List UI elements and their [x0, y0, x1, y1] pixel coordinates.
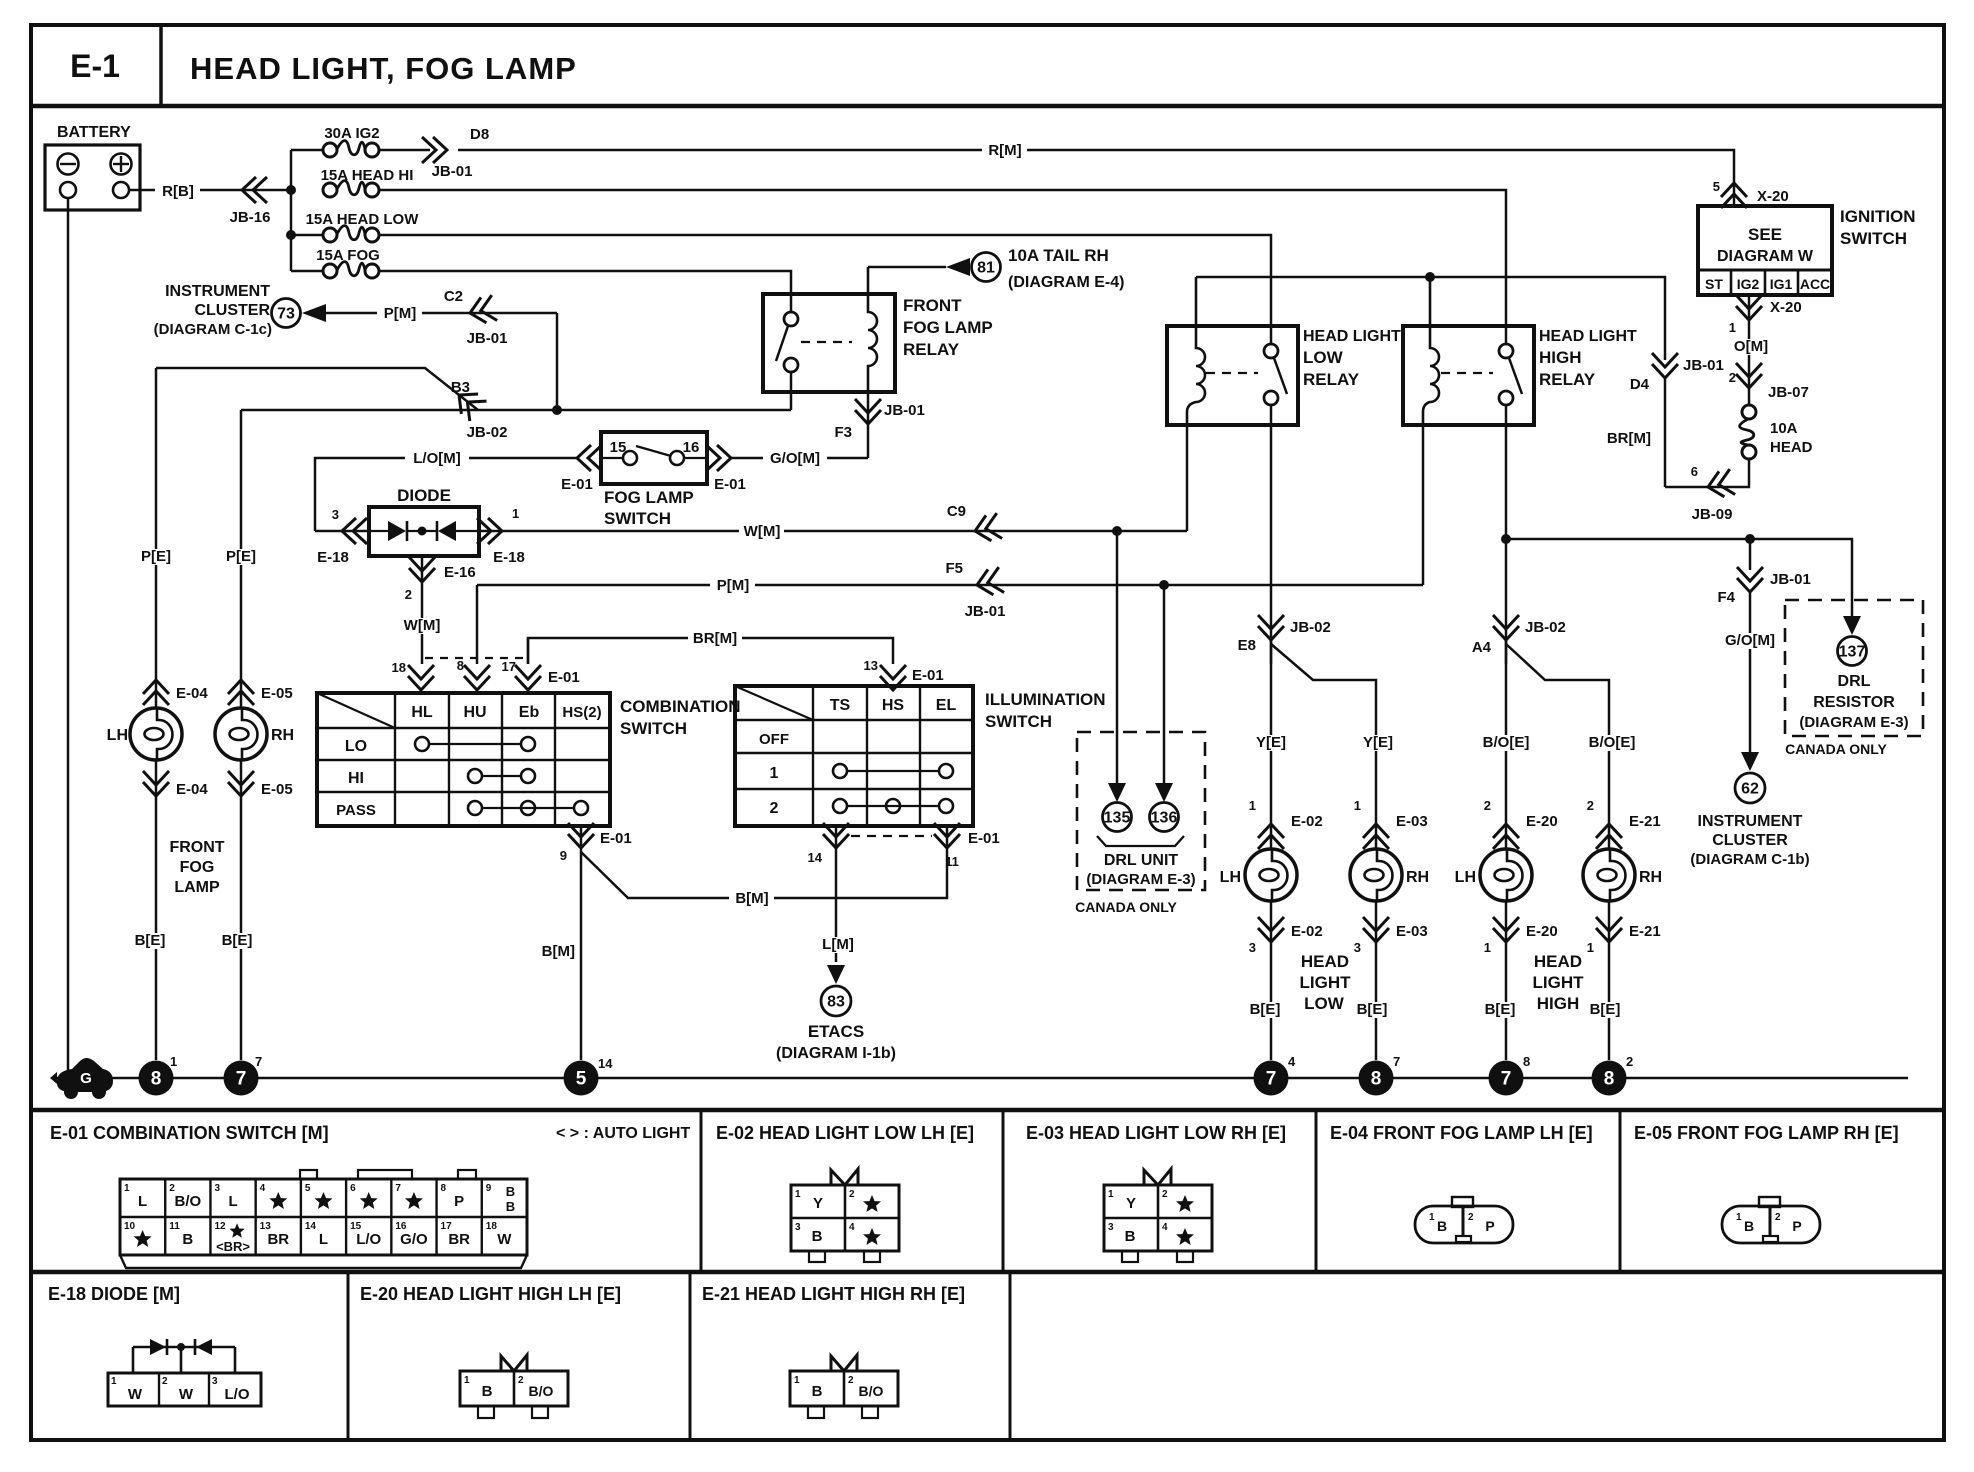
svg-text:G: G — [80, 1070, 92, 1087]
svg-text:X-20: X-20 — [1770, 299, 1802, 316]
svg-text:EL: EL — [936, 697, 957, 714]
svg-text:6: 6 — [350, 1183, 356, 1194]
svg-text:2: 2 — [405, 587, 412, 602]
svg-text:FRONT: FRONT — [169, 839, 224, 856]
svg-text:E-01 COMBINATION SWITCH [M]: E-01 COMBINATION SWITCH [M] — [50, 1123, 329, 1143]
svg-text:DRL UNIT: DRL UNIT — [1104, 852, 1179, 869]
connector chevron A4 JB-02 — [1493, 615, 1519, 640]
svg-text:3: 3 — [1354, 940, 1361, 955]
svg-text:HS(2): HS(2) — [562, 704, 601, 721]
svg-text:HEAD: HEAD — [1534, 952, 1582, 971]
svg-text:IG2: IG2 — [1737, 276, 1760, 292]
wire 15A FOG to fog lamp relay switch — [379, 271, 791, 312]
svg-text:B: B — [506, 1184, 515, 1199]
svg-text:73: 73 — [277, 306, 295, 323]
svg-text:G/O: G/O — [400, 1231, 428, 1248]
ground node 8 (pin 1) — [139, 1061, 174, 1096]
wire P[E] fog LH — [155, 368, 158, 708]
wire R[M] to ignition switch — [379, 149, 430, 152]
svg-text:5: 5 — [576, 1069, 587, 1090]
wire to head light low relay coil — [1186, 425, 1189, 531]
svg-text:JB-01: JB-01 — [884, 402, 925, 419]
off-page ref 136 — [1150, 803, 1179, 832]
svg-text:3: 3 — [1249, 940, 1256, 955]
lamp front fog LH — [130, 708, 182, 760]
connector E-21 2-pin — [790, 1371, 898, 1406]
svg-text:2: 2 — [1468, 1212, 1474, 1223]
wire to DRL 135 — [1116, 531, 1119, 784]
svg-text:<BR>: <BR> — [216, 1239, 250, 1254]
wire L/O[M] — [315, 458, 577, 531]
connector chevron JB-16 — [242, 177, 267, 203]
svg-text:L[M]: L[M] — [822, 936, 854, 953]
svg-text:P: P — [1485, 1218, 1494, 1234]
svg-text:E-01: E-01 — [548, 669, 580, 686]
svg-text:CLUSTER: CLUSTER — [1712, 832, 1788, 849]
svg-text:L: L — [138, 1193, 147, 1210]
svg-text:B: B — [506, 1199, 515, 1214]
svg-text:HIGH: HIGH — [1539, 348, 1582, 367]
wire P[E] fog RH — [240, 410, 243, 708]
connector E-05 oval — [1722, 1206, 1820, 1243]
svg-text:E-1: E-1 — [70, 48, 120, 84]
wire O[M] — [1748, 330, 1751, 405]
svg-text:DIAGRAM W: DIAGRAM W — [1717, 248, 1814, 265]
svg-text:R[M]: R[M] — [988, 142, 1021, 159]
connector chevron 2 JB-07 — [1736, 363, 1762, 388]
svg-text:HEAD LIGHT: HEAD LIGHT — [1303, 328, 1401, 345]
svg-text:JB-09: JB-09 — [1692, 506, 1733, 523]
svg-text:7: 7 — [236, 1069, 247, 1090]
svg-text:W: W — [179, 1386, 194, 1403]
svg-text:2: 2 — [770, 800, 779, 817]
svg-text:30A IG2: 30A IG2 — [324, 125, 379, 142]
svg-text:JB-01: JB-01 — [1683, 357, 1724, 374]
svg-text:RELAY: RELAY — [1303, 370, 1360, 389]
junction node battery feed — [290, 150, 293, 271]
svg-text:RH: RH — [1639, 869, 1662, 886]
svg-text:2: 2 — [1626, 1054, 1633, 1069]
connector chevron 14 E-01 below — [835, 826, 838, 852]
diode D1 — [369, 530, 388, 532]
svg-text:8: 8 — [1604, 1069, 1615, 1090]
svg-text:3: 3 — [212, 1376, 218, 1387]
svg-text:P[M]: P[M] — [717, 577, 750, 594]
svg-text:E-20: E-20 — [1526, 923, 1558, 940]
svg-text:E-05 FRONT FOG LAMP RH [E]: E-05 FRONT FOG LAMP RH [E] — [1634, 1123, 1899, 1143]
connector chevron E-01 (fog switch right) — [706, 445, 731, 471]
svg-text:11: 11 — [945, 854, 959, 869]
connector chevron 9 E-01 below table — [580, 826, 583, 852]
svg-text:E-20: E-20 — [1526, 813, 1558, 830]
svg-text:1: 1 — [1354, 798, 1361, 813]
svg-text:(DIAGRAM E-3): (DIAGRAM E-3) — [1086, 871, 1195, 888]
ground symbol G (car) — [57, 1058, 113, 1092]
connector chevron E-04 lower — [155, 760, 158, 1060]
wire P[M] to instrument cluster — [326, 312, 557, 315]
fog lamp switch — [601, 432, 707, 484]
wire battery plus R[B] — [129, 189, 291, 192]
svg-text:RH: RH — [271, 727, 294, 744]
svg-text:10A TAIL RH: 10A TAIL RH — [1008, 246, 1109, 265]
illumination switch table — [735, 686, 973, 826]
svg-text:IG1: IG1 — [1770, 276, 1793, 292]
svg-text:4: 4 — [1162, 1222, 1168, 1233]
combination switch HI contacts — [468, 769, 482, 783]
svg-text:FOG: FOG — [180, 859, 215, 876]
svg-text:8: 8 — [457, 658, 464, 673]
diode D2 — [436, 521, 439, 541]
svg-text:W[M]: W[M] — [404, 617, 441, 634]
svg-text:HS: HS — [882, 697, 905, 714]
svg-text:1: 1 — [1736, 1212, 1742, 1223]
svg-text:D8: D8 — [470, 126, 489, 143]
svg-text:RESISTOR: RESISTOR — [1813, 694, 1895, 711]
svg-text:SWITCH: SWITCH — [1840, 229, 1907, 248]
svg-text:(DIAGRAM E-3): (DIAGRAM E-3) — [1799, 714, 1908, 731]
wire low relay switch to E8 — [1270, 405, 1273, 664]
svg-text:HIGH: HIGH — [1537, 994, 1580, 1013]
svg-text:2: 2 — [848, 1375, 854, 1386]
ground node 7 (pin 4) — [1254, 1061, 1289, 1096]
connector chevron 1 E-21 — [1608, 901, 1611, 1060]
connector chevron 2 E-20 — [1493, 824, 1519, 849]
svg-text:5: 5 — [1713, 179, 1720, 194]
svg-text:L/O: L/O — [356, 1231, 381, 1248]
svg-text:81: 81 — [977, 260, 995, 277]
wire Y[E] low RH branch — [1271, 644, 1376, 849]
wire W[M] horizontal — [517, 530, 1187, 533]
svg-text:10A: 10A — [1770, 420, 1798, 437]
svg-text:B[E]: B[E] — [1590, 1001, 1621, 1018]
lamp head light low RH — [1350, 849, 1402, 901]
svg-text:1: 1 — [1484, 940, 1491, 955]
svg-text:2: 2 — [1587, 798, 1594, 813]
svg-text:LH: LH — [107, 727, 128, 744]
svg-text:15A FOG: 15A FOG — [316, 247, 380, 264]
svg-text:LH: LH — [1220, 869, 1241, 886]
svg-text:CLUSTER: CLUSTER — [194, 302, 270, 319]
svg-text:B/O[E]: B/O[E] — [1483, 734, 1530, 751]
svg-text:LIGHT: LIGHT — [1533, 973, 1585, 992]
svg-text:LAMP: LAMP — [174, 879, 220, 896]
svg-text:PASS: PASS — [336, 802, 376, 819]
svg-text:B[M]: B[M] — [542, 943, 575, 960]
svg-text:HEAD LIGHT, FOG LAMP: HEAD LIGHT, FOG LAMP — [190, 51, 577, 86]
svg-text:2: 2 — [1162, 1189, 1168, 1200]
svg-text:E-01: E-01 — [600, 830, 632, 847]
fog relay switch contacts — [784, 312, 798, 326]
svg-text:3: 3 — [214, 1183, 220, 1194]
connector chevron 3 E-18 — [342, 518, 367, 544]
svg-text:E8: E8 — [1238, 637, 1256, 654]
svg-text:Y: Y — [1126, 1195, 1136, 1212]
illumination switch row2 contacts — [833, 799, 847, 813]
svg-text:JB-07: JB-07 — [1768, 384, 1809, 401]
svg-text:BATTERY: BATTERY — [57, 124, 131, 141]
svg-text:B[M]: B[M] — [735, 890, 768, 907]
ground node 7 (pin 7) — [224, 1061, 259, 1096]
svg-text:RELAY: RELAY — [1539, 370, 1596, 389]
fuse 10A HEAD — [1742, 405, 1756, 419]
svg-text:9: 9 — [560, 848, 567, 863]
wire battery minus to ground — [67, 198, 70, 1078]
svg-text:16: 16 — [683, 439, 700, 456]
svg-text:1: 1 — [794, 1375, 800, 1386]
svg-text:B/O[E]: B/O[E] — [1589, 734, 1636, 751]
svg-text:E-21: E-21 — [1629, 813, 1661, 830]
svg-text:14: 14 — [305, 1221, 317, 1232]
svg-text:135: 135 — [1104, 810, 1131, 827]
svg-text:G/O[M]: G/O[M] — [1725, 632, 1775, 649]
connector E-02 4-pin — [791, 1185, 899, 1251]
svg-text:W: W — [128, 1386, 143, 1403]
connector chevron E8 JB-02 — [1258, 615, 1284, 640]
svg-text:B: B — [482, 1383, 493, 1400]
wire P[E] fog RH feed — [241, 409, 478, 412]
svg-text:A4: A4 — [1472, 639, 1492, 656]
svg-text:15A HEAD HI: 15A HEAD HI — [321, 167, 414, 184]
svg-text:L: L — [228, 1193, 237, 1210]
svg-text:B/O: B/O — [174, 1193, 201, 1210]
svg-text:E-01: E-01 — [968, 830, 1000, 847]
svg-text:E-02 HEAD LIGHT LOW LH [E]: E-02 HEAD LIGHT LOW LH [E] — [716, 1123, 974, 1143]
svg-text:E-18 DIODE [M]: E-18 DIODE [M] — [48, 1284, 180, 1304]
svg-text:7: 7 — [395, 1183, 401, 1194]
svg-text:2: 2 — [849, 1189, 855, 1200]
svg-text:SEE: SEE — [1748, 225, 1782, 244]
svg-text:HI: HI — [348, 770, 364, 787]
svg-text:1: 1 — [1429, 1212, 1435, 1223]
svg-text:E-04: E-04 — [176, 685, 208, 702]
svg-text:9: 9 — [486, 1183, 492, 1194]
svg-text:C2: C2 — [444, 288, 463, 305]
svg-text:E-01: E-01 — [912, 667, 944, 684]
svg-text:B[E]: B[E] — [222, 932, 253, 949]
svg-text:P[E]: P[E] — [226, 548, 256, 565]
wire L[M] to ETACS — [835, 852, 838, 962]
svg-text:BR: BR — [267, 1231, 289, 1248]
head light low relay switch — [1264, 344, 1278, 358]
svg-text:10: 10 — [124, 1221, 136, 1232]
svg-text:LOW: LOW — [1303, 348, 1344, 367]
combination switch table — [317, 693, 610, 826]
connector E-20 2-pin — [460, 1371, 568, 1406]
connector chevron 13 E-01 — [880, 665, 906, 690]
svg-text:HL: HL — [411, 704, 433, 721]
svg-text:6: 6 — [1691, 464, 1698, 479]
svg-text:(DIAGRAM E-4): (DIAGRAM E-4) — [1008, 274, 1124, 291]
DRL unit bracket — [1097, 836, 1184, 846]
svg-text:COMBINATION: COMBINATION — [620, 697, 741, 716]
svg-text:F4: F4 — [1717, 589, 1735, 606]
wire high relay switch down — [1505, 405, 1508, 664]
svg-text:7: 7 — [1393, 1054, 1400, 1069]
wire P[M] from pin 8 — [477, 584, 1423, 587]
wire into diode left — [315, 530, 369, 533]
svg-text:LH: LH — [1455, 869, 1476, 886]
svg-text:DRL: DRL — [1838, 673, 1871, 690]
svg-text:(DIAGRAM C-1c): (DIAGRAM C-1c) — [154, 321, 272, 338]
svg-text:1: 1 — [512, 506, 519, 521]
svg-text:E-18: E-18 — [317, 549, 349, 566]
illumination switch row1 contacts — [833, 764, 847, 778]
svg-text:1: 1 — [795, 1189, 801, 1200]
svg-text:HU: HU — [463, 704, 486, 721]
svg-text:E-20 HEAD LIGHT HIGH LH [E]: E-20 HEAD LIGHT HIGH LH [E] — [360, 1284, 621, 1304]
svg-text:FOG LAMP: FOG LAMP — [604, 488, 694, 507]
svg-text:JB-02: JB-02 — [1290, 619, 1331, 636]
wire Y[E] low LH — [1270, 640, 1273, 849]
svg-text:1: 1 — [770, 765, 779, 782]
svg-text:ETACS: ETACS — [808, 1022, 864, 1041]
svg-text:17: 17 — [502, 659, 516, 674]
head light low relay coil — [1187, 277, 1205, 425]
head light high relay switch — [1499, 344, 1513, 358]
connector chevron F5 JB-01 — [974, 567, 1004, 598]
ground node 7 (pin 8) — [1489, 1061, 1524, 1096]
svg-text:136: 136 — [1151, 810, 1178, 827]
svg-text:FRONT: FRONT — [903, 296, 962, 315]
lamp front fog RH — [215, 708, 267, 760]
connector chevron E-05 lower — [240, 760, 243, 1060]
connector chevron C9 — [972, 513, 1002, 544]
connector chevron 1 E-20 — [1505, 901, 1508, 1060]
lamp head light low LH — [1245, 849, 1297, 901]
svg-text:B[E]: B[E] — [1485, 1001, 1516, 1018]
ground node 5 (pin 14) — [564, 1061, 599, 1096]
svg-text:B3: B3 — [451, 379, 470, 396]
svg-text:B: B — [812, 1383, 823, 1400]
connector E-03 4-pin — [1104, 1185, 1212, 1251]
svg-text:E-02: E-02 — [1291, 923, 1323, 940]
svg-text:R[B]: R[B] — [162, 183, 194, 200]
svg-text:3: 3 — [795, 1222, 801, 1233]
svg-text:CANADA ONLY: CANADA ONLY — [1785, 741, 1887, 757]
svg-text:15A HEAD LOW: 15A HEAD LOW — [306, 211, 420, 228]
svg-text:BR: BR — [448, 1231, 470, 1248]
off-page ref 135 — [1103, 803, 1132, 832]
svg-text:7: 7 — [1501, 1069, 1512, 1090]
svg-text:E-01: E-01 — [714, 476, 746, 493]
svg-text:E-03: E-03 — [1396, 923, 1428, 940]
svg-text:Eb: Eb — [519, 704, 540, 721]
svg-text:JB-01: JB-01 — [1770, 571, 1811, 588]
connector chevron 2 E-21 — [1596, 824, 1622, 849]
svg-text:SWITCH: SWITCH — [985, 712, 1052, 731]
svg-text:FOG LAMP: FOG LAMP — [903, 318, 993, 337]
svg-text:13: 13 — [864, 658, 878, 673]
svg-text:JB-01: JB-01 — [965, 603, 1006, 620]
svg-text:B[E]: B[E] — [135, 932, 166, 949]
wire G fog feed B3 — [478, 409, 791, 412]
wire 15A HEAD HI to head light high relay — [379, 190, 1506, 344]
connector chevron 3 E-02 — [1270, 901, 1273, 1060]
svg-text:L/O: L/O — [225, 1386, 250, 1403]
svg-text:8: 8 — [1523, 1054, 1530, 1069]
svg-text:1: 1 — [1249, 798, 1256, 813]
fog relay dashed link — [801, 341, 852, 343]
svg-text:B: B — [812, 1228, 823, 1245]
svg-text:JB-02: JB-02 — [1525, 619, 1566, 636]
svg-text:OFF: OFF — [759, 731, 789, 748]
svg-text:O[M]: O[M] — [1734, 338, 1768, 355]
svg-text:E-05: E-05 — [261, 685, 293, 702]
relay HEAD LIGHT LOW RELAY — [1167, 326, 1298, 425]
svg-text:18: 18 — [392, 660, 406, 675]
svg-text:B: B — [1744, 1218, 1754, 1234]
connector chevron 18 E-01 — [408, 665, 434, 690]
combination switch PASS contacts — [468, 801, 482, 815]
svg-text:P: P — [454, 1193, 464, 1210]
svg-text:E-21: E-21 — [1629, 923, 1661, 940]
connector chevron 3 E-03 — [1375, 901, 1378, 1060]
svg-text:8: 8 — [1371, 1069, 1382, 1090]
junction to DRL unit 135 — [1112, 526, 1122, 536]
svg-text:SWITCH: SWITCH — [620, 719, 687, 738]
connector chevron 1 E-02 — [1258, 824, 1284, 849]
svg-text:W: W — [497, 1231, 512, 1248]
off-page ref 81 10A TAIL RH — [868, 266, 946, 269]
svg-text:5: 5 — [305, 1183, 311, 1194]
ground node 8 (pin 2) — [1592, 1061, 1627, 1096]
wire BR[M] from pin 17 — [528, 638, 893, 664]
connector chevron 1 E-18 — [479, 530, 517, 533]
svg-text:HEAD: HEAD — [1301, 952, 1349, 971]
off-page ref 83 ETACS — [827, 965, 845, 984]
svg-text:BR[M]: BR[M] — [693, 630, 737, 647]
E-18 diode symbol — [133, 1346, 235, 1349]
svg-text:HEAD: HEAD — [1770, 439, 1813, 456]
connector E-01 18-pin — [120, 1179, 527, 1255]
svg-text:1: 1 — [464, 1375, 470, 1386]
connector chevron 1 E-03 — [1363, 824, 1389, 849]
svg-text:7: 7 — [255, 1054, 262, 1069]
svg-text:3: 3 — [332, 507, 339, 522]
svg-text:HEAD LIGHT: HEAD LIGHT — [1539, 328, 1637, 345]
svg-text:B/O: B/O — [859, 1383, 884, 1399]
svg-text:137: 137 — [1839, 644, 1866, 661]
connector chevron 11 E-01 below — [946, 826, 949, 852]
svg-text:TS: TS — [830, 697, 851, 714]
svg-text:X-20: X-20 — [1757, 188, 1789, 205]
ground bus wire — [55, 1077, 1908, 1080]
svg-text:E-01: E-01 — [561, 476, 593, 493]
connector chevron F4 JB-01 — [1737, 567, 1763, 592]
svg-text:D4: D4 — [1630, 376, 1650, 393]
connector E-04 oval — [1415, 1206, 1513, 1243]
fog relay coil — [868, 267, 877, 392]
svg-text:8: 8 — [151, 1069, 162, 1090]
svg-text:F3: F3 — [834, 424, 852, 441]
svg-text:ACC: ACC — [1800, 276, 1830, 292]
svg-text:4: 4 — [1288, 1054, 1296, 1069]
svg-text:11: 11 — [169, 1221, 180, 1232]
svg-text:L/O[M]: L/O[M] — [413, 450, 460, 467]
svg-text:2: 2 — [162, 1376, 168, 1387]
svg-text:E-18: E-18 — [493, 549, 525, 566]
svg-text:E-03: E-03 — [1396, 813, 1428, 830]
svg-text:4: 4 — [260, 1183, 266, 1194]
ground node 8 (pin 7) — [1359, 1061, 1394, 1096]
svg-text:E-04 FRONT FOG LAMP LH [E]: E-04 FRONT FOG LAMP LH [E] — [1330, 1123, 1593, 1143]
svg-text:12: 12 — [214, 1221, 226, 1232]
title bar — [31, 104, 1944, 109]
svg-text:7: 7 — [1266, 1069, 1277, 1090]
svg-text:14: 14 — [808, 850, 823, 865]
svg-text:1: 1 — [124, 1183, 130, 1194]
svg-text:P[E]: P[E] — [141, 548, 171, 565]
